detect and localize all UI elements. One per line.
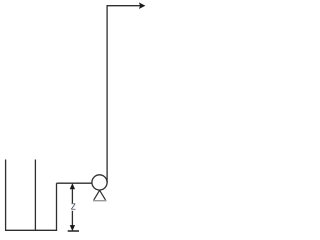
discharge pipe horizontal <box>107 5 141 7</box>
pump P1 triangle base <box>93 200 107 202</box>
tank bottom <box>5 229 57 231</box>
dimension arrowhead down <box>70 225 74 230</box>
dimension line lower segment <box>71 211 73 227</box>
pump P1 triangle sides <box>94 190 106 200</box>
dimension line upper segment <box>71 188 73 203</box>
discharge pipe vertical <box>106 6 108 183</box>
suction pipe <box>57 182 93 184</box>
datum tick <box>68 230 79 232</box>
flow arrowhead <box>140 3 145 8</box>
tank right wall <box>34 160 36 231</box>
suction riser wall <box>56 183 58 231</box>
pump P1 body <box>92 175 107 190</box>
dimension arrowhead up <box>70 184 74 189</box>
tank left wall <box>5 160 7 231</box>
svg-text:Z: Z <box>71 202 76 211</box>
